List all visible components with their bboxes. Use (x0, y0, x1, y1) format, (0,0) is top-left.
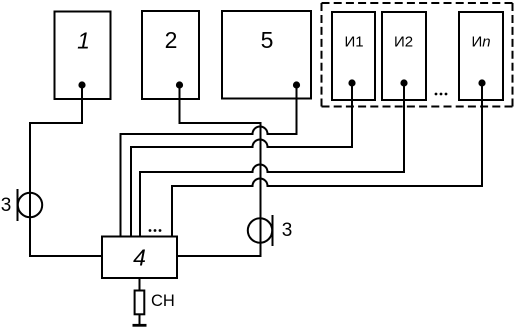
svg-text:5: 5 (261, 27, 274, 53)
ellipsis between I2 and In (435, 93, 448, 96)
node: I2 terminal (400, 79, 407, 86)
svg-text:3: 3 (282, 220, 293, 241)
svg-text:И1: И1 (344, 34, 363, 51)
wire: I2 to block 4 (hop over centre wire) (140, 83, 404, 237)
ground (133, 324, 147, 327)
block I2 (382, 12, 426, 100)
svg-text:Иn: Иn (471, 34, 490, 51)
resistor CH (135, 291, 145, 315)
current transformer 3 (left): bar (17, 189, 19, 221)
wire: In to block 4 (hop over centre wire) (172, 83, 482, 237)
node: block 2 output terminal (176, 81, 183, 88)
wire: block 4 to load resistor CH (139, 278, 141, 291)
svg-text:2: 2 (165, 27, 178, 53)
svg-text:СН: СН (151, 292, 175, 310)
svg-text:3: 3 (1, 195, 12, 216)
block 2 (142, 11, 199, 99)
wire: I1 to block 4 (hop over centre wire) (131, 83, 352, 237)
node: I1 terminal (348, 79, 355, 86)
wire: block 2 down the centre through transformer 3 (right) to block 4 right side (177, 85, 261, 256)
ellipsis above block 4 between wires (149, 229, 162, 232)
wire: resistor to ground (139, 315, 141, 325)
block 4 (102, 237, 177, 279)
block I1 (332, 12, 375, 100)
block In (459, 12, 503, 100)
current transformer 3 (right): bar (272, 215, 274, 246)
node: block 5 output terminal (293, 81, 300, 88)
current transformer 3 (left): circle (18, 193, 42, 217)
current transformer 3 (right): circle (248, 218, 272, 242)
block 1 (55, 12, 111, 100)
node: block 1 output terminal (78, 81, 85, 88)
svg-text:И2: И2 (394, 34, 413, 51)
svg-text:4: 4 (133, 245, 146, 271)
wire: block 5 to block 4 (hop over centre wire) (121, 85, 297, 237)
svg-text:1: 1 (77, 28, 90, 54)
block 5 (222, 11, 311, 99)
wire: block 1 to transformer 3 (left) to block 4 left side (30, 85, 102, 256)
node: In terminal (478, 79, 485, 86)
dashed group enclosure for measuring instruments (322, 3, 513, 107)
